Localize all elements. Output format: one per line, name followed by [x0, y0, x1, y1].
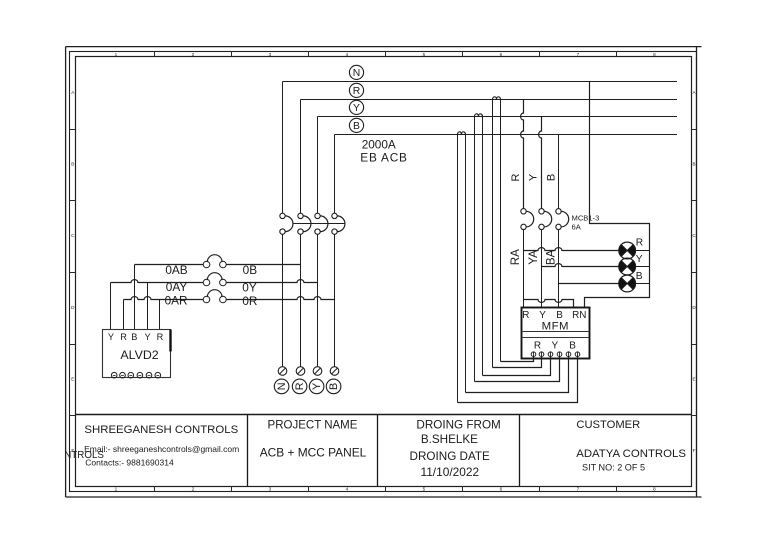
svg-text:0AR: 0AR	[165, 294, 188, 308]
svg-text:R: R	[294, 382, 306, 390]
svg-text:B.SHELKE: B.SHELKE	[421, 433, 478, 446]
svg-text:2: 2	[192, 487, 195, 492]
svg-text:B: B	[353, 121, 360, 132]
svg-text:DROING FROM: DROING FROM	[416, 419, 500, 432]
svg-text:4: 4	[346, 52, 349, 57]
svg-text:MFM: MFM	[542, 320, 569, 332]
svg-text:6: 6	[500, 52, 503, 57]
svg-text:2: 2	[192, 52, 195, 57]
svg-text:0Y: 0Y	[242, 280, 257, 294]
svg-text:PROJECT NAME: PROJECT NAME	[268, 419, 358, 431]
svg-text:B: B	[569, 341, 576, 352]
svg-text:B: B	[636, 271, 643, 282]
svg-text:Email:- shreeganeshcontrols@gm: Email:- shreeganeshcontrols@gmail.com	[84, 444, 239, 454]
svg-text:2000A: 2000A	[362, 138, 396, 152]
svg-text:B: B	[328, 383, 340, 390]
svg-text:Y: Y	[636, 254, 643, 265]
svg-text:1: 1	[115, 487, 118, 492]
svg-text:3: 3	[269, 52, 272, 57]
svg-text:11/10/2022: 11/10/2022	[420, 465, 479, 479]
svg-text:3: 3	[269, 487, 272, 492]
svg-text:7: 7	[577, 487, 580, 492]
svg-text:Y: Y	[145, 332, 151, 342]
svg-text:8: 8	[653, 52, 656, 57]
svg-text:Contacts:- 9881690314: Contacts:- 9881690314	[85, 457, 174, 467]
svg-text:B: B	[692, 162, 695, 167]
svg-text:R: R	[157, 332, 164, 342]
svg-text:EB ACB: EB ACB	[360, 151, 407, 165]
svg-text:4: 4	[346, 487, 349, 492]
svg-text:0B: 0B	[243, 263, 258, 277]
svg-text:F: F	[693, 448, 696, 453]
svg-text:R: R	[353, 86, 361, 97]
svg-text:YA: YA	[527, 250, 540, 265]
svg-text:R: R	[510, 173, 522, 181]
svg-text:ADATYA CONTROLS: ADATYA CONTROLS	[576, 448, 686, 460]
svg-text:Y: Y	[311, 383, 323, 390]
svg-text:SIT NO: 2 OF 5: SIT NO: 2 OF 5	[582, 462, 645, 472]
svg-text:R: R	[636, 237, 643, 248]
svg-text:F: F	[71, 448, 74, 453]
svg-text:R: R	[120, 332, 127, 342]
svg-text:N: N	[353, 68, 361, 79]
svg-text:R: R	[522, 310, 529, 321]
svg-text:5: 5	[423, 52, 426, 57]
svg-text:RA: RA	[509, 249, 522, 265]
svg-text:ACB + MCC PANEL: ACB + MCC PANEL	[260, 446, 367, 460]
svg-text:R: R	[534, 341, 541, 352]
svg-text:0AY: 0AY	[166, 280, 188, 294]
svg-text:CUSTOMER: CUSTOMER	[576, 419, 640, 431]
svg-text:8: 8	[653, 487, 656, 492]
svg-text:7: 7	[577, 52, 580, 57]
svg-text:5: 5	[423, 487, 426, 492]
svg-text:B: B	[71, 162, 74, 167]
svg-text:N: N	[276, 382, 288, 390]
svg-text:B: B	[556, 310, 563, 321]
svg-text:6A: 6A	[572, 222, 582, 231]
svg-text:SHREEGANESH CONTROLS: SHREEGANESH CONTROLS	[84, 424, 238, 436]
svg-text:B: B	[546, 174, 558, 181]
svg-text:0AB: 0AB	[165, 263, 187, 277]
svg-text:BA: BA	[545, 249, 558, 265]
svg-text:Y: Y	[528, 173, 540, 181]
svg-text:Y: Y	[551, 341, 558, 352]
svg-text:E: E	[71, 376, 74, 381]
svg-text:E: E	[692, 376, 695, 381]
svg-text:B: B	[131, 332, 137, 342]
svg-text:Y: Y	[353, 103, 360, 114]
svg-text:ALVD2: ALVD2	[120, 348, 158, 362]
svg-text:0R: 0R	[242, 294, 257, 308]
svg-text:Y: Y	[539, 310, 546, 321]
svg-text:Y: Y	[108, 332, 114, 342]
svg-text:RN: RN	[572, 310, 586, 321]
svg-text:6: 6	[500, 487, 503, 492]
svg-text:DROING DATE: DROING DATE	[410, 450, 491, 463]
svg-text:1: 1	[115, 52, 118, 57]
